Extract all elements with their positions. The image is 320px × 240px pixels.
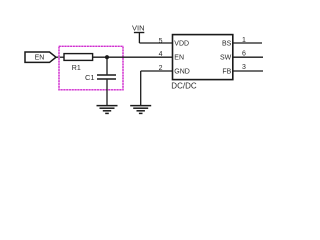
svg-text:VDD: VDD <box>174 41 189 48</box>
dashed highlight box <box>59 46 123 90</box>
svg-text:DC/DC: DC/DC <box>171 81 197 90</box>
svg-text:5: 5 <box>159 38 163 45</box>
svg-text:4: 4 <box>159 51 163 58</box>
wire pin 3 FB <box>233 70 263 72</box>
pin 1 BS <box>222 37 246 48</box>
wire EN flag to R1 <box>56 56 64 58</box>
ground (C1) <box>97 106 118 114</box>
wire R1 to U1 EN pin <box>93 56 173 58</box>
pin 3 FB <box>222 64 246 76</box>
junction node <box>105 55 109 59</box>
svg-text:R1: R1 <box>72 65 81 72</box>
svg-text:3: 3 <box>242 64 246 71</box>
svg-text:2: 2 <box>159 65 163 72</box>
wire ground stem <box>140 71 142 105</box>
svg-text:GND: GND <box>174 69 190 76</box>
pin 4 EN <box>159 51 184 62</box>
pin 6 SW <box>220 50 246 61</box>
svg-text:SW: SW <box>220 55 232 62</box>
svg-text:C1: C1 <box>85 73 95 82</box>
wire ground to U1 GND pin <box>141 70 173 72</box>
svg-text:VIN: VIN <box>132 23 145 32</box>
pin 2 GND <box>159 65 190 76</box>
pin 5 VDD <box>159 38 189 48</box>
capacitor C1 <box>85 57 116 105</box>
power net VIN <box>132 23 145 43</box>
svg-text:EN: EN <box>174 55 184 62</box>
wire VIN to U1 VDD pin <box>139 42 172 44</box>
connector flag EN <box>25 52 56 62</box>
svg-text:EN: EN <box>35 55 45 62</box>
wire pin 6 SW <box>233 56 263 58</box>
svg-text:FB: FB <box>222 69 231 76</box>
resistor R1 <box>64 54 93 72</box>
wire pin 1 BS <box>233 42 262 44</box>
svg-text:6: 6 <box>242 50 246 57</box>
ground (U1 GND) <box>130 106 151 114</box>
svg-text:BS: BS <box>222 41 232 48</box>
DC/DC converter U1 body <box>171 35 233 91</box>
